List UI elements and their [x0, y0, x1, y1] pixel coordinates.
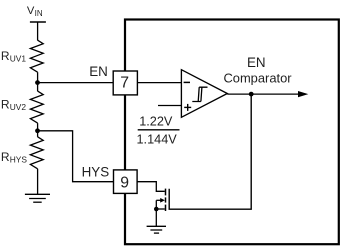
svg-text:R: R: [1, 150, 10, 164]
svg-text:1.144V: 1.144V: [137, 133, 178, 147]
svg-text:IN: IN: [35, 9, 43, 18]
svg-text:R: R: [1, 49, 10, 63]
svg-text:UV2: UV2: [10, 102, 27, 112]
svg-text:UV1: UV1: [10, 54, 27, 64]
svg-text:Comparator: Comparator: [223, 70, 292, 85]
svg-text:HYS: HYS: [82, 164, 110, 179]
svg-text:EN: EN: [247, 55, 266, 70]
svg-text:HYS: HYS: [10, 155, 28, 165]
svg-text:9: 9: [120, 175, 129, 192]
svg-text:7: 7: [120, 74, 129, 91]
svg-text:1.22V: 1.22V: [139, 114, 173, 128]
svg-text:R: R: [1, 98, 10, 112]
svg-text:EN: EN: [89, 64, 108, 79]
